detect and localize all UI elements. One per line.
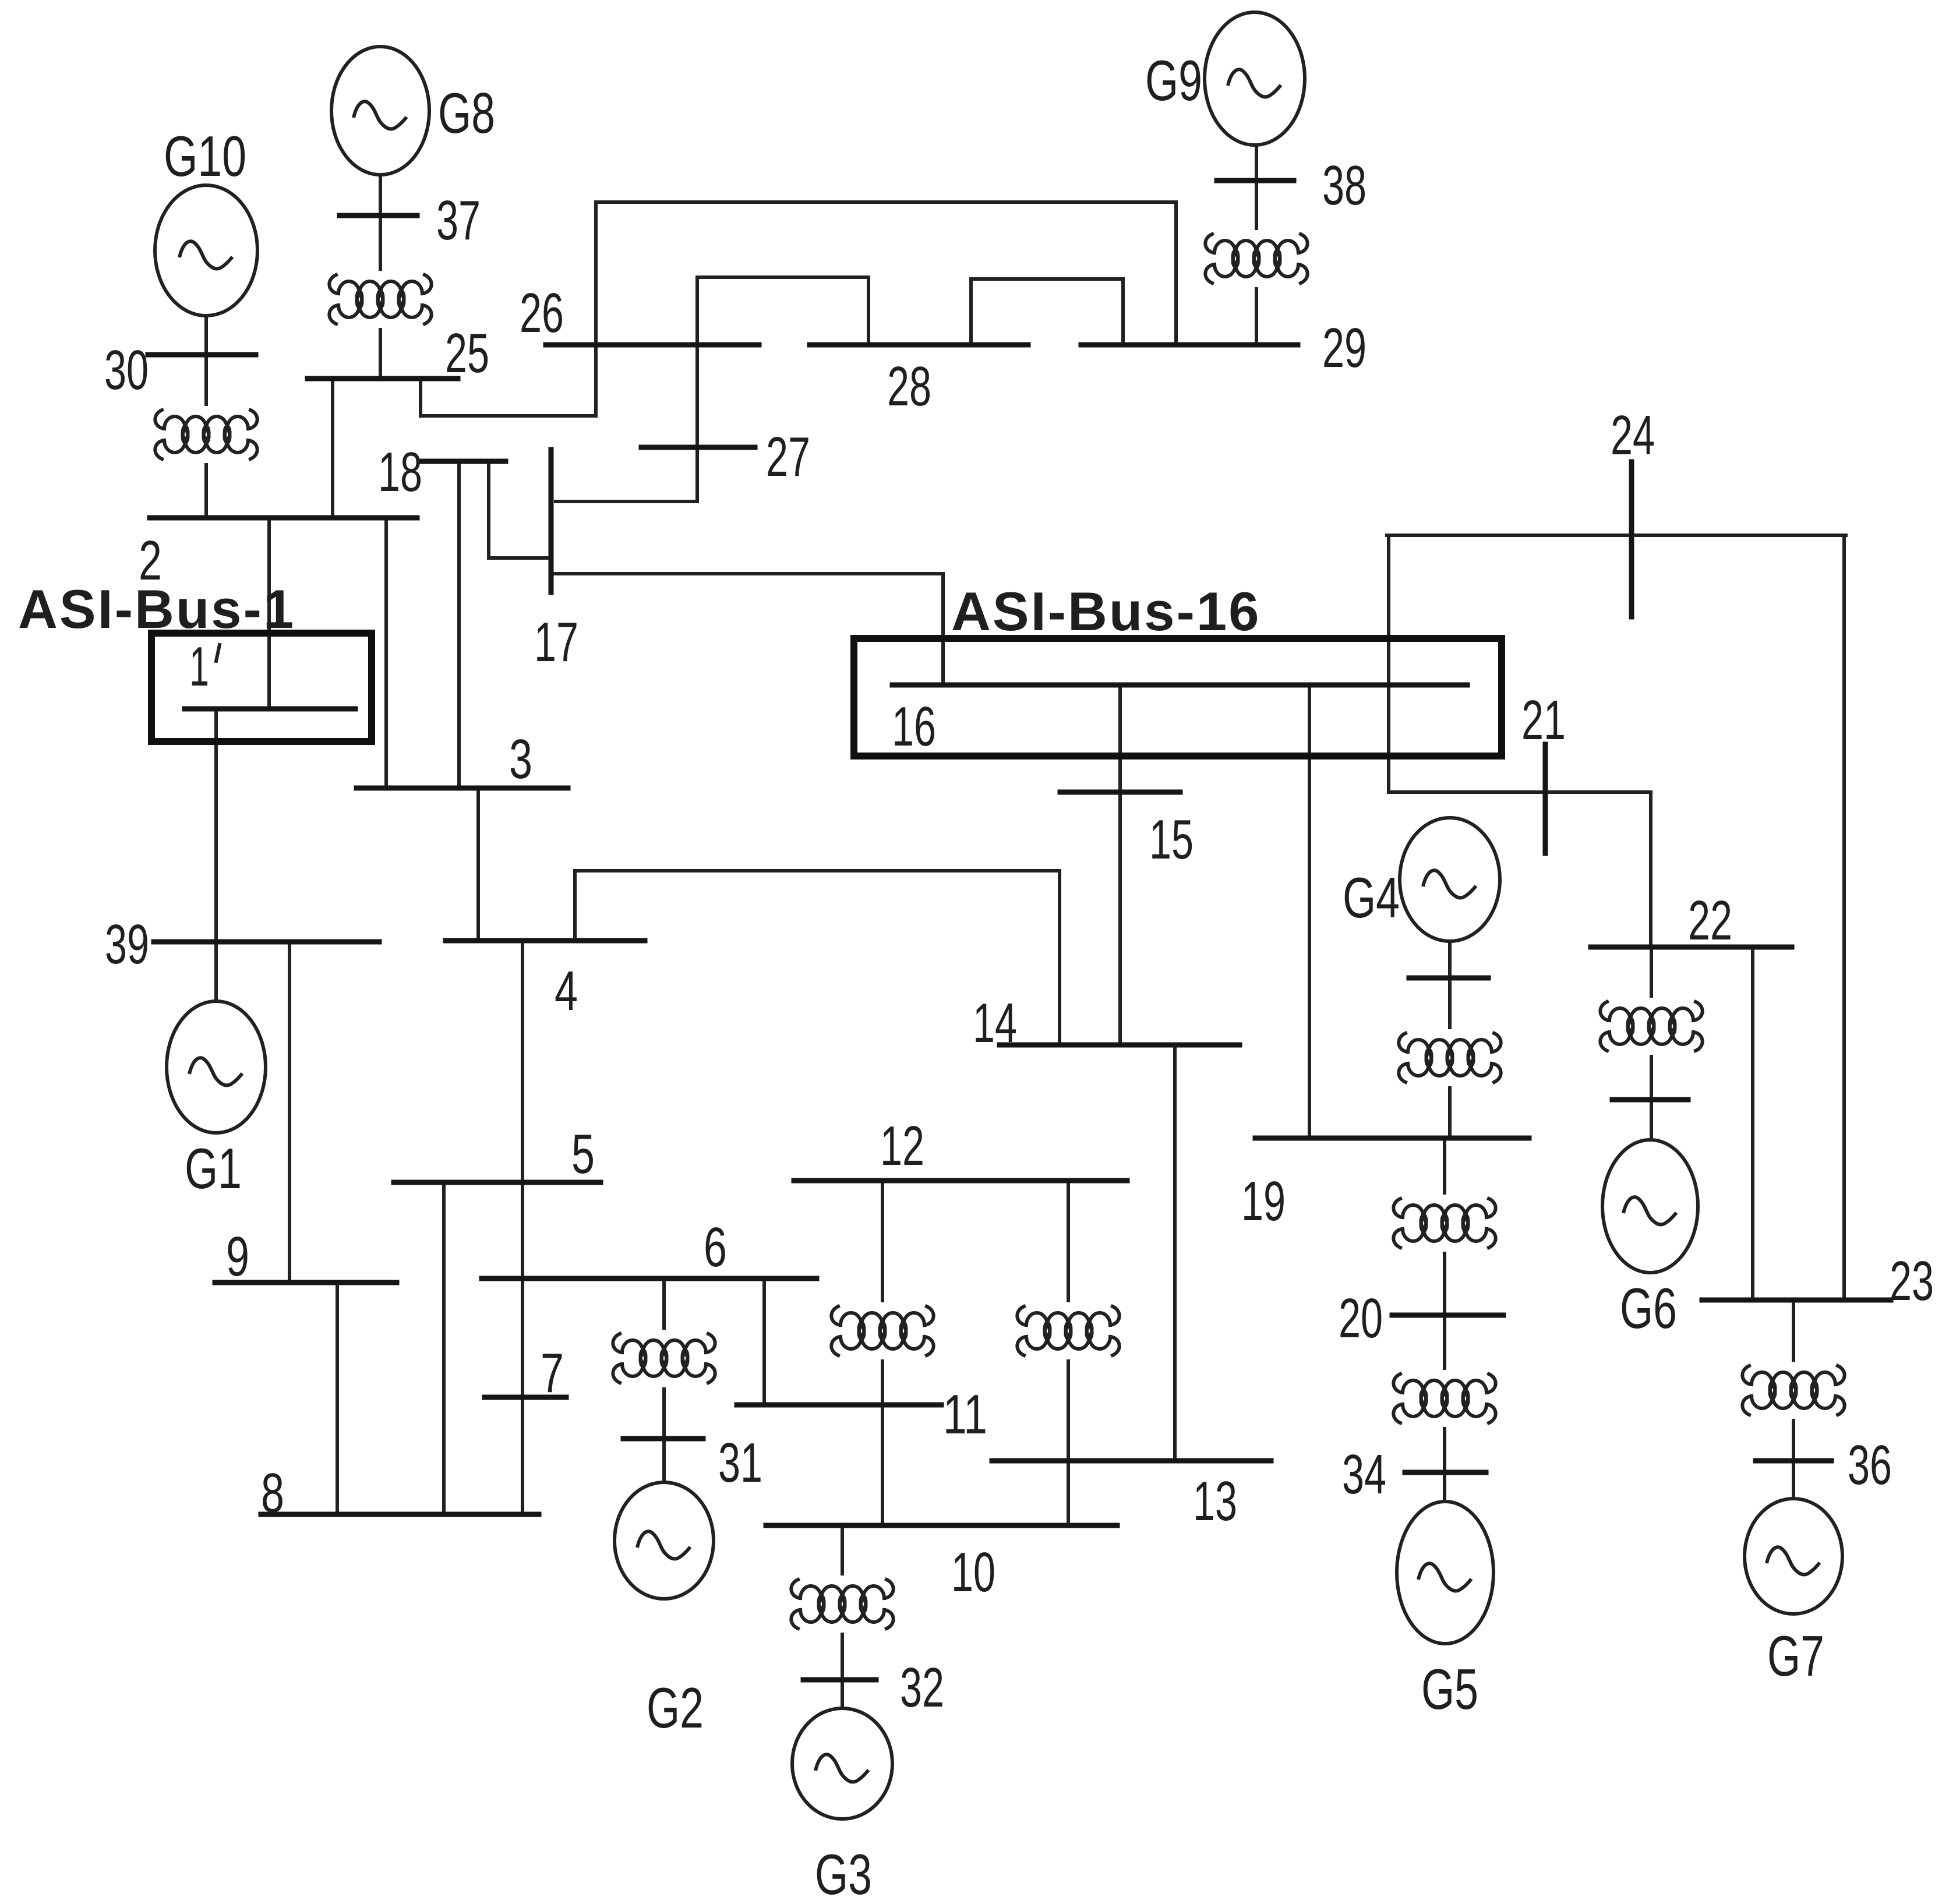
bus 9	[215, 1280, 397, 1285]
wire line 13-14	[1173, 1045, 1177, 1461]
svg-text:11: 11	[943, 1383, 987, 1446]
transformer 19-33 (G4 step-up)	[1399, 1033, 1500, 1082]
ASI-Bus-1 highlight box	[151, 633, 372, 741]
bus 19	[1255, 1136, 1529, 1141]
ASI-Bus-16 highlight box	[854, 638, 1502, 756]
wire line 4-14 overhead	[575, 871, 1060, 1045]
wire line 6-11	[762, 1278, 766, 1405]
bus 36	[1756, 1458, 1831, 1464]
svg-text:G8: G8	[438, 81, 495, 145]
wire line 25-26 jog	[421, 345, 596, 416]
wire line 5-8	[442, 1182, 446, 1514]
svg-text:32: 32	[900, 1656, 944, 1719]
wire line 16-19	[1308, 685, 1311, 1138]
wire line 14-15-16	[1118, 685, 1122, 1045]
bus 26	[546, 342, 759, 348]
bus 16	[892, 683, 1467, 688]
bus 7	[485, 1395, 566, 1400]
wire transformer to bus 35 to G6	[1650, 1057, 1653, 1140]
bus 8	[261, 1512, 539, 1517]
svg-text:24: 24	[1611, 404, 1655, 467]
svg-text:6: 6	[704, 1216, 727, 1278]
svg-text:G9: G9	[1145, 48, 1202, 112]
svg-text:ASI-Bus-16: ASI-Bus-16	[951, 581, 1260, 642]
bus 13	[992, 1458, 1271, 1464]
bus 35	[1612, 1097, 1688, 1103]
transformer 6-31 (G2 step-up)	[613, 1334, 715, 1383]
svg-text:28: 28	[887, 355, 931, 418]
wire line 1-2	[267, 518, 271, 709]
bus 22	[1591, 945, 1792, 950]
bus 3	[356, 786, 568, 791]
wire line 26-27 and 27-17 drop	[556, 345, 697, 501]
bus 20	[1392, 1313, 1503, 1318]
wire transformer to bus 20	[1443, 1253, 1446, 1368]
wire transformer to bus 34 to G5	[1443, 1429, 1446, 1502]
transformer 10-32 (G3 step-up)	[791, 1580, 893, 1629]
generator G6	[1602, 1140, 1698, 1273]
svg-text:3: 3	[509, 728, 532, 790]
wire line 24 top run	[1387, 534, 1846, 537]
wire transformer to bus 31 to G2	[662, 1389, 666, 1482]
svg-text:8: 8	[261, 1462, 284, 1524]
bus 34	[1405, 1470, 1486, 1475]
wire bus 12 to transformer (11 side)	[881, 1181, 884, 1301]
svg-text:18: 18	[378, 441, 422, 503]
wire line 24-23 drop	[1842, 535, 1846, 1300]
bus 38	[1217, 178, 1294, 183]
svg-text:13: 13	[1193, 1470, 1237, 1532]
wire line 4-5-6-7-8 vertical run	[521, 941, 524, 1514]
wire transformer to bus 36 to G7	[1792, 1421, 1795, 1499]
bus 2	[150, 515, 417, 521]
bus 25	[308, 376, 458, 381]
svg-text:7: 7	[541, 1342, 564, 1404]
svg-text:36: 36	[1848, 1434, 1892, 1496]
bus 32	[803, 1677, 876, 1683]
wire line 21-22 drop	[1649, 792, 1653, 947]
generator G7	[1745, 1499, 1842, 1614]
transformer 20-34 (G5 step-up)	[1393, 1374, 1495, 1423]
bus 10	[766, 1523, 1117, 1528]
wire G9 to bus 38 to transformer	[1255, 145, 1258, 228]
svg-text:17: 17	[534, 611, 578, 673]
wire line 28-29 staple	[971, 279, 1123, 345]
bus 1	[185, 707, 355, 712]
wire line 3-18	[457, 461, 461, 788]
svg-text:G4: G4	[1343, 866, 1400, 930]
svg-text:19: 19	[1241, 1170, 1286, 1232]
wire bus 23 to transformer	[1792, 1300, 1795, 1360]
bus 17	[549, 450, 554, 592]
transformer 22-35 (G6 step-up)	[1600, 1002, 1702, 1051]
bus 21	[1543, 744, 1548, 853]
svg-text:38: 38	[1322, 154, 1367, 217]
svg-text:G3: G3	[815, 1842, 872, 1904]
wire bus 22 to transformer	[1650, 947, 1653, 996]
svg-text:12: 12	[880, 1115, 924, 1177]
bus 12	[794, 1178, 1127, 1184]
svg-text:G7: G7	[1767, 1624, 1824, 1688]
svg-text:10: 10	[951, 1541, 995, 1603]
wire G10 to bus 30 to transformer	[204, 316, 208, 404]
svg-text:16: 16	[892, 695, 936, 758]
transformer 38-29 (G9 step-up)	[1205, 234, 1307, 283]
bus 14	[1000, 1043, 1240, 1048]
wire line 17-18 jog	[489, 461, 551, 558]
svg-text:27: 27	[766, 426, 810, 488]
bus 37	[340, 213, 417, 218]
wire transformer to bus 2	[204, 465, 208, 518]
svg-text:39: 39	[105, 913, 149, 976]
wire line 22-23	[1751, 947, 1754, 1300]
wire transformer to bus 25	[379, 330, 382, 379]
wire transformer to bus 29	[1255, 289, 1258, 345]
svg-text:9: 9	[226, 1225, 249, 1288]
generator G10	[155, 185, 257, 316]
wire line 8-9	[336, 1283, 339, 1514]
svg-text:23: 23	[1890, 1250, 1934, 1312]
wire line 26-29 overhead	[596, 202, 1176, 345]
wire bus 6 to transformer	[662, 1278, 666, 1328]
wire line 2-3	[384, 518, 388, 788]
transformer 19-20	[1393, 1199, 1495, 1248]
svg-text:22: 22	[1688, 889, 1732, 952]
svg-text:14: 14	[973, 992, 1017, 1054]
svg-text:G10: G10	[164, 124, 246, 188]
wire line 2-25	[331, 379, 334, 518]
bus 4	[446, 938, 645, 944]
generator G4	[1400, 818, 1500, 941]
svg-text:31: 31	[718, 1432, 762, 1494]
generator G8	[331, 47, 429, 175]
wire line 9-39	[288, 942, 291, 1283]
svg-text:G2: G2	[647, 1676, 704, 1740]
bus 23	[1702, 1298, 1891, 1303]
wire line 16-24 riser	[1387, 535, 1390, 685]
bus 5	[394, 1180, 601, 1185]
bus 33	[1409, 976, 1488, 981]
transformer 37-25 (G8 step-up)	[329, 275, 431, 324]
wire line 16-17 jog	[555, 574, 943, 685]
bus 15	[1060, 790, 1180, 795]
svg-text:20: 20	[1339, 1287, 1383, 1350]
wire line 26-28 staple	[697, 277, 868, 345]
wire line 16-21 jog	[1389, 685, 1651, 792]
svg-text:34: 34	[1342, 1443, 1386, 1506]
bus 39	[154, 939, 379, 945]
bus 11	[737, 1403, 941, 1408]
wire line 1-39 and G1 lead	[214, 709, 218, 1001]
wire transformer to bus 11 and line 10-11	[881, 1361, 884, 1525]
bus 24	[1629, 462, 1634, 617]
wire G4 to bus 33 to transformer	[1448, 941, 1452, 1027]
svg-text:30: 30	[104, 339, 149, 401]
generator G2	[615, 1482, 714, 1599]
transformer 30-2 (G10 step-up)	[155, 410, 257, 459]
transformer 12-13	[1017, 1306, 1119, 1355]
svg-text:26: 26	[520, 282, 564, 344]
transformer 23-36 (G7 step-up)	[1742, 1366, 1844, 1415]
bus 1 label apostrophe	[216, 645, 220, 661]
wire bus 19 to transformer (20 side)	[1443, 1138, 1446, 1193]
svg-text:ASI-Bus-1: ASI-Bus-1	[18, 578, 295, 640]
wire G8 to bus 37 to transformer	[379, 175, 382, 269]
svg-text:G6: G6	[1620, 1276, 1677, 1340]
generator G5	[1397, 1502, 1493, 1644]
transformer 12-11	[831, 1306, 933, 1355]
wire transformer to bus 19	[1448, 1088, 1452, 1138]
svg-text:21: 21	[1521, 689, 1566, 751]
generator G1	[167, 1001, 266, 1133]
wire transformer to bus 13 and line 10-13	[1067, 1361, 1070, 1525]
svg-text:37: 37	[436, 189, 481, 252]
bus 31	[623, 1436, 703, 1442]
generator G9	[1205, 12, 1305, 145]
generator G3	[792, 1708, 892, 1819]
bus 28	[810, 342, 1028, 348]
svg-text:1: 1	[189, 635, 209, 698]
bus 27	[641, 445, 755, 450]
bus 30	[148, 352, 256, 358]
bus 29	[1081, 342, 1298, 348]
wire bus 12 to transformer (13 side)	[1067, 1181, 1070, 1301]
bus 18	[421, 459, 506, 464]
wire line 3-4	[476, 788, 480, 941]
bus 6	[482, 1276, 817, 1281]
svg-text:25: 25	[445, 322, 489, 384]
svg-text:G5: G5	[1421, 1657, 1478, 1721]
svg-text:4: 4	[555, 960, 578, 1022]
svg-text:5: 5	[571, 1123, 595, 1185]
svg-text:15: 15	[1149, 808, 1194, 871]
wire transformer to bus 32 to G3	[841, 1634, 844, 1708]
wire bus 10 to transformer	[841, 1525, 844, 1574]
svg-text:29: 29	[1322, 317, 1367, 379]
svg-text:G1: G1	[185, 1136, 242, 1200]
